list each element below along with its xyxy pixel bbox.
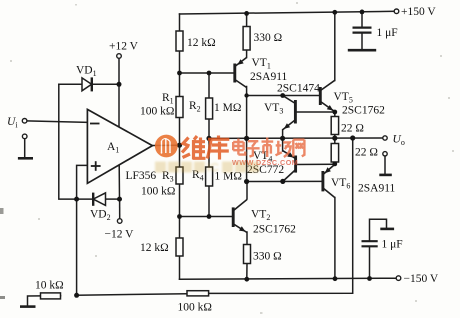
svg-text:2SA911: 2SA911 (358, 183, 396, 195)
svg-text:2SC1474: 2SC1474 (277, 83, 320, 95)
svg-text:100 kΩ: 100 kΩ (178, 302, 212, 314)
svg-text:330 Ω: 330 Ω (253, 251, 282, 263)
svg-text:VD2: VD2 (90, 209, 111, 223)
svg-text:100 kΩ: 100 kΩ (141, 186, 175, 198)
svg-text:2SC1762: 2SC1762 (342, 105, 385, 117)
svg-text:−150 V: −150 V (404, 273, 439, 285)
svg-text:Ui: Ui (7, 116, 18, 130)
svg-text:VD1: VD1 (76, 65, 97, 79)
svg-text:12 kΩ: 12 kΩ (187, 37, 216, 49)
svg-text:−12 V: −12 V (105, 229, 135, 241)
svg-text:IC: IC (207, 161, 219, 175)
svg-text:R1: R1 (162, 92, 174, 106)
svg-text:330 Ω: 330 Ω (254, 32, 283, 44)
svg-text:1 μF: 1 μF (382, 239, 403, 251)
svg-text:VT3: VT3 (264, 102, 283, 116)
svg-text:VT5: VT5 (334, 91, 353, 105)
svg-text:VT6: VT6 (331, 177, 350, 191)
svg-text:22 Ω: 22 Ω (355, 147, 378, 159)
svg-text:22 Ω: 22 Ω (341, 123, 364, 135)
svg-text:100 kΩ: 100 kΩ (140, 106, 174, 118)
svg-text:12 kΩ: 12 kΩ (140, 242, 169, 254)
svg-text:+12 V: +12 V (109, 41, 139, 53)
svg-text:10 kΩ: 10 kΩ (35, 280, 64, 292)
svg-text:2SA911: 2SA911 (250, 71, 288, 83)
svg-text:VT2: VT2 (251, 209, 270, 223)
svg-text:VT1: VT1 (252, 57, 271, 71)
svg-text:1 μF: 1 μF (377, 27, 398, 39)
svg-text:1 MΩ: 1 MΩ (214, 102, 241, 114)
svg-text:Uo: Uo (393, 134, 405, 148)
svg-text:+150 V: +150 V (401, 6, 436, 18)
svg-text:LF356: LF356 (126, 170, 157, 182)
svg-text:R2: R2 (189, 100, 201, 114)
svg-text:2SC1762: 2SC1762 (253, 224, 296, 236)
